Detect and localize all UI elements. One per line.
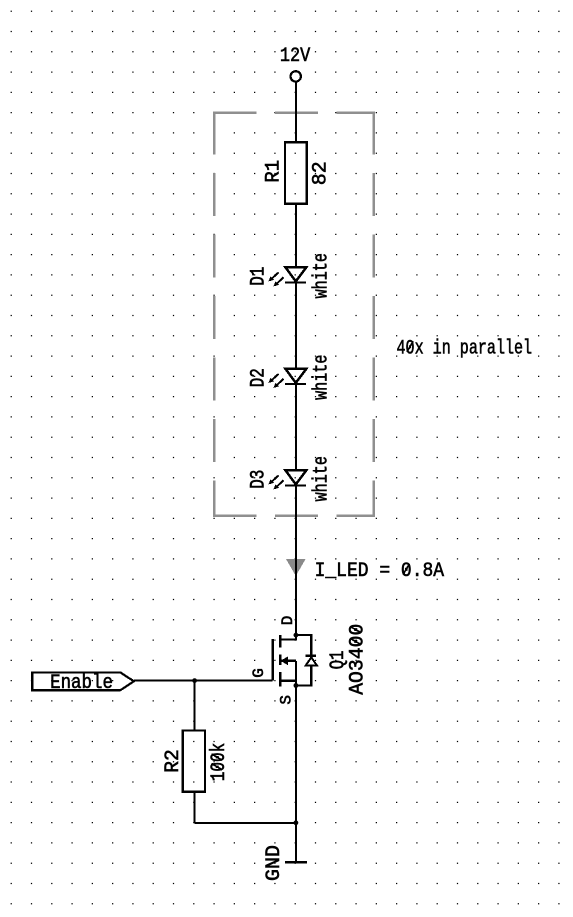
svg-text:D: D bbox=[279, 616, 297, 626]
svg-text:D3: D3 bbox=[247, 470, 270, 489]
svg-text:D1: D1 bbox=[247, 267, 270, 286]
svg-text:12V: 12V bbox=[280, 45, 310, 68]
svg-text:white: white bbox=[310, 253, 333, 298]
svg-text:white: white bbox=[310, 456, 333, 501]
svg-text:white: white bbox=[310, 355, 333, 400]
svg-text:GND: GND bbox=[263, 845, 286, 881]
svg-text:D2: D2 bbox=[247, 368, 270, 387]
svg-text:R2: R2 bbox=[162, 749, 185, 773]
svg-text:Enable: Enable bbox=[50, 672, 113, 695]
svg-text:100k: 100k bbox=[208, 743, 231, 782]
svg-text:I_LED = 0.8A: I_LED = 0.8A bbox=[315, 560, 445, 583]
svg-text:82: 82 bbox=[309, 161, 332, 185]
svg-text:AO3400: AO3400 bbox=[347, 624, 370, 695]
svg-text:S: S bbox=[278, 695, 296, 705]
svg-text:40x in parallel: 40x in parallel bbox=[397, 337, 533, 360]
svg-text:G: G bbox=[250, 668, 268, 678]
svg-text:R1: R1 bbox=[263, 160, 286, 183]
